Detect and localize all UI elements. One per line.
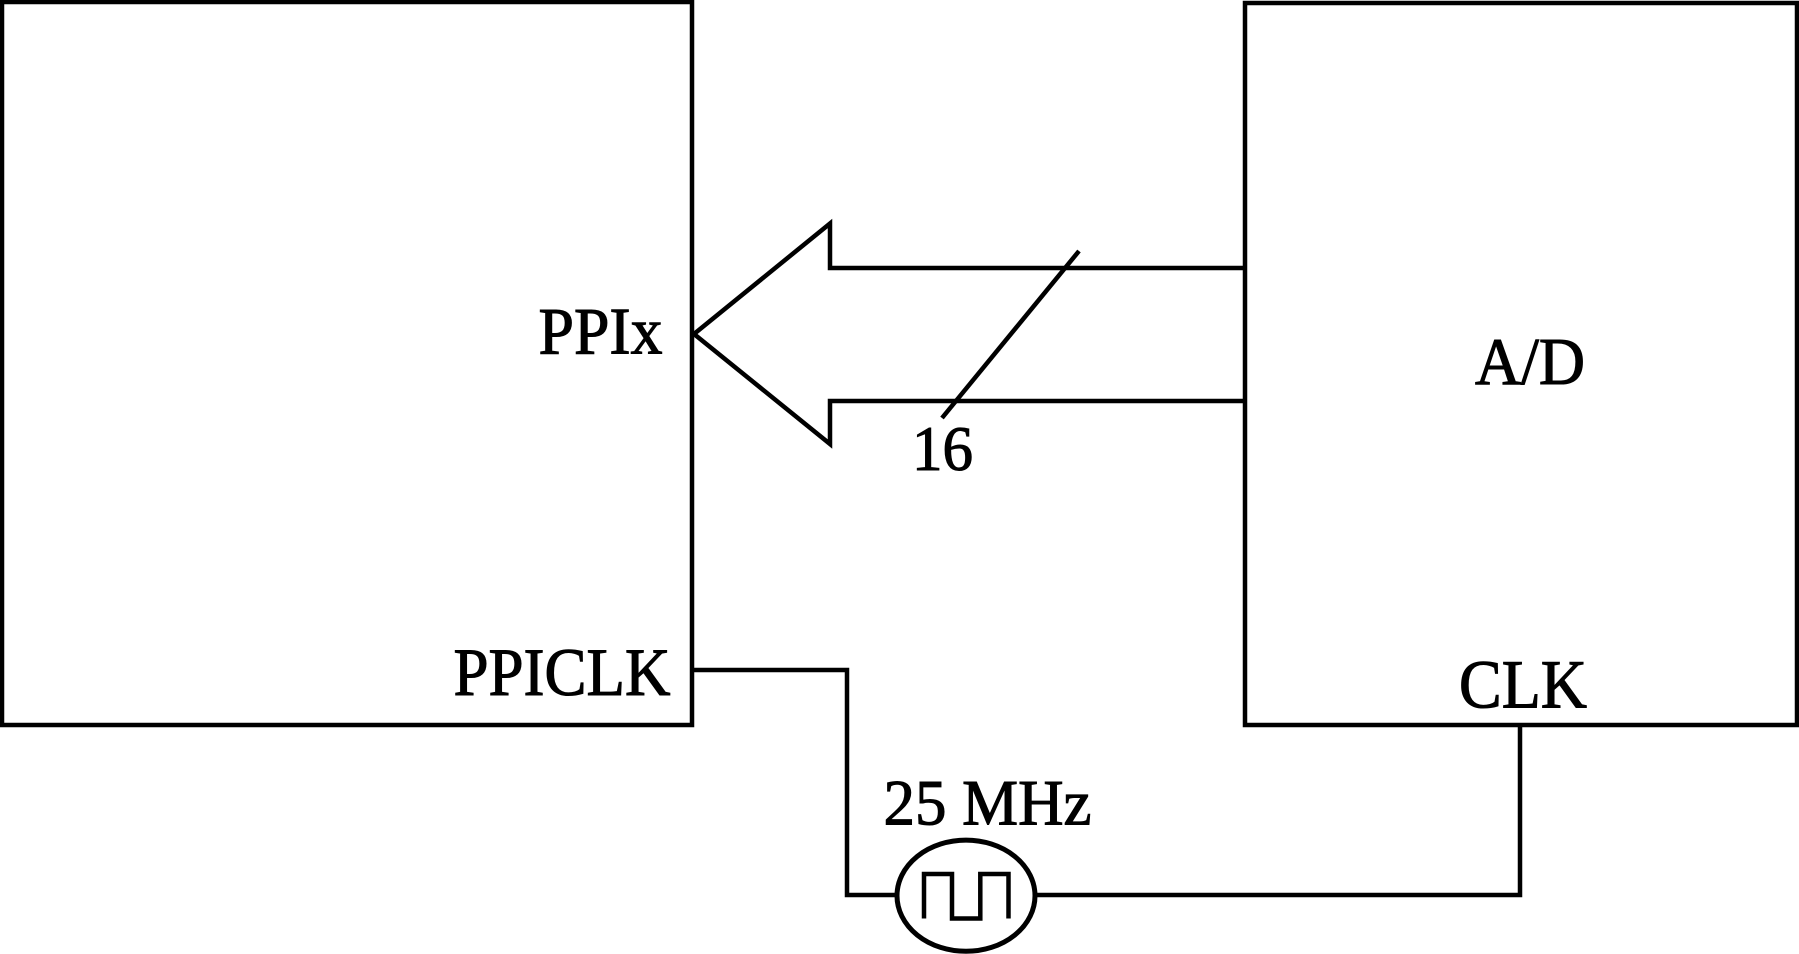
svg-text:25 MHz: 25 MHz <box>884 768 1092 840</box>
svg-text:CLK: CLK <box>1459 647 1587 723</box>
svg-text:PPICLK: PPICLK <box>454 634 671 710</box>
svg-text:16: 16 <box>912 414 973 484</box>
svg-text:PPIx: PPIx <box>539 295 663 369</box>
svg-text:A/D: A/D <box>1475 325 1585 399</box>
